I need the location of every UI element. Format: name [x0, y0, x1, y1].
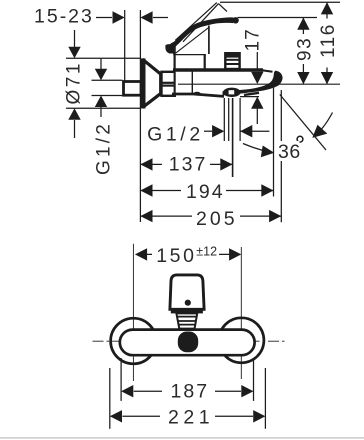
svg-text:17: 17 — [243, 28, 264, 51]
svg-text:93: 93 — [295, 37, 316, 61]
svg-text:221: 221 — [168, 407, 214, 429]
svg-text:194: 194 — [186, 181, 225, 203]
svg-text:137: 137 — [169, 154, 208, 176]
svg-text:205: 205 — [196, 208, 238, 230]
svg-text:116: 116 — [318, 23, 339, 58]
svg-text:G1/2: G1/2 — [94, 121, 115, 175]
svg-text:187: 187 — [171, 381, 210, 403]
svg-text:36: 36 — [278, 141, 301, 163]
svg-text:±12: ±12 — [196, 245, 217, 259]
svg-text:Ø71: Ø71 — [64, 61, 85, 104]
svg-text:G1/2: G1/2 — [147, 124, 204, 146]
svg-text:150: 150 — [156, 245, 196, 267]
svg-text:15-23: 15-23 — [34, 5, 94, 27]
